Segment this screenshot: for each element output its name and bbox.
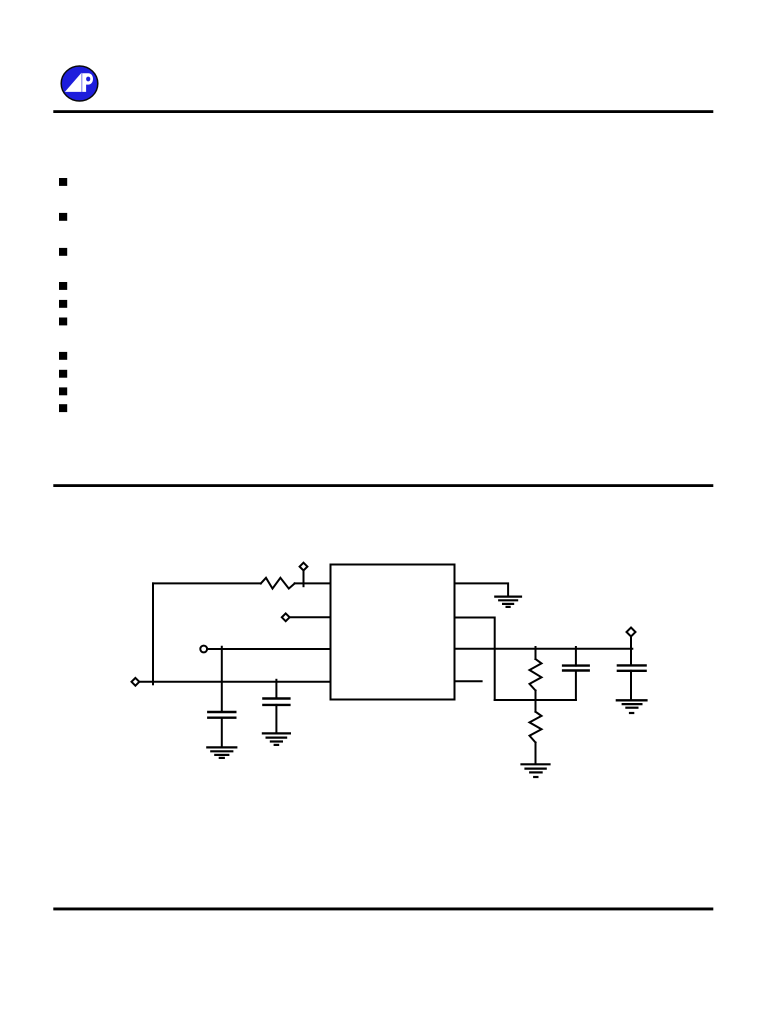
feature bullet 2 (59, 213, 67, 221)
feature bullet 4 (59, 282, 67, 290)
resistor R2 (feedback upper) (535, 647, 537, 659)
ground G4 (522, 763, 550, 765)
IC U1 (331, 565, 455, 700)
capacitor C3 (feed-forward) (575, 647, 577, 666)
wire: FB node horizontal (495, 699, 576, 701)
wire: pin L1 right segment (295, 582, 331, 584)
wire: pin L4 (bottom-left horizontal) (139, 681, 330, 683)
footer rule (53, 908, 713, 911)
capacitor C4 (output cap) (630, 649, 632, 666)
wire: pin L3 (207, 648, 330, 650)
node BS (diamond terminal) (300, 563, 308, 571)
section rule (53, 484, 713, 487)
resistor R1 (series, top-left) (261, 578, 295, 589)
feature bullet 3 (59, 248, 67, 256)
ground G5 (617, 699, 647, 701)
wire: pin R2 (FB) down to divider (455, 618, 495, 701)
header rule (53, 110, 713, 113)
feature bullet 8 (59, 370, 67, 378)
wire: stub to node BS (303, 571, 305, 587)
node SS (circle terminal) (200, 646, 207, 653)
capacitor C1 (on pin L3 net) (221, 647, 223, 712)
wire: stub from VOUT node (630, 637, 632, 649)
wire: left vertical (input rail) (152, 583, 154, 684)
feature bullet 7 (59, 352, 67, 360)
capacitor C2 (input cap) (275, 680, 277, 699)
company logo (blue circle with white A/P) (61, 66, 98, 101)
node VOUT (diamond terminal) (627, 628, 636, 637)
ground G1 (207, 746, 236, 748)
ground G3 (495, 595, 521, 597)
feature bullet 1 (59, 178, 67, 186)
node VIN (diamond terminal) (132, 678, 140, 686)
feature bullet 10 (59, 404, 67, 412)
ground G2 (263, 732, 290, 734)
wire: pin R4 stub (455, 680, 482, 682)
wire: pin L1 left segment (153, 582, 261, 584)
feature bullet 9 (59, 387, 67, 395)
node EN (diamond terminal) (282, 613, 290, 621)
wire: pin R1 (455, 583, 509, 596)
wire: pin R3 (VOUT rail) (455, 648, 633, 650)
feature bullet 6 (59, 318, 67, 326)
feature bullet 5 (59, 300, 67, 308)
resistor R3 (feedback lower) (535, 700, 537, 712)
wire: pin L2 (290, 616, 331, 618)
